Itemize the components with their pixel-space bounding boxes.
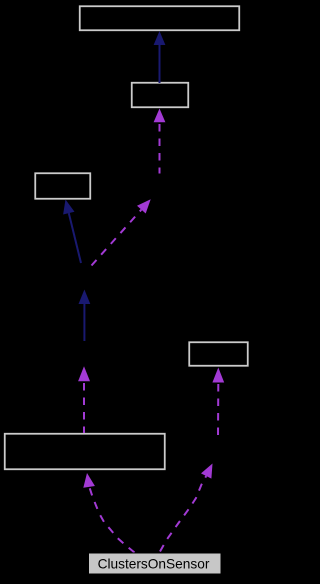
svg-text:ClustersOnSensor: ClustersOnSensor [98, 557, 210, 572]
